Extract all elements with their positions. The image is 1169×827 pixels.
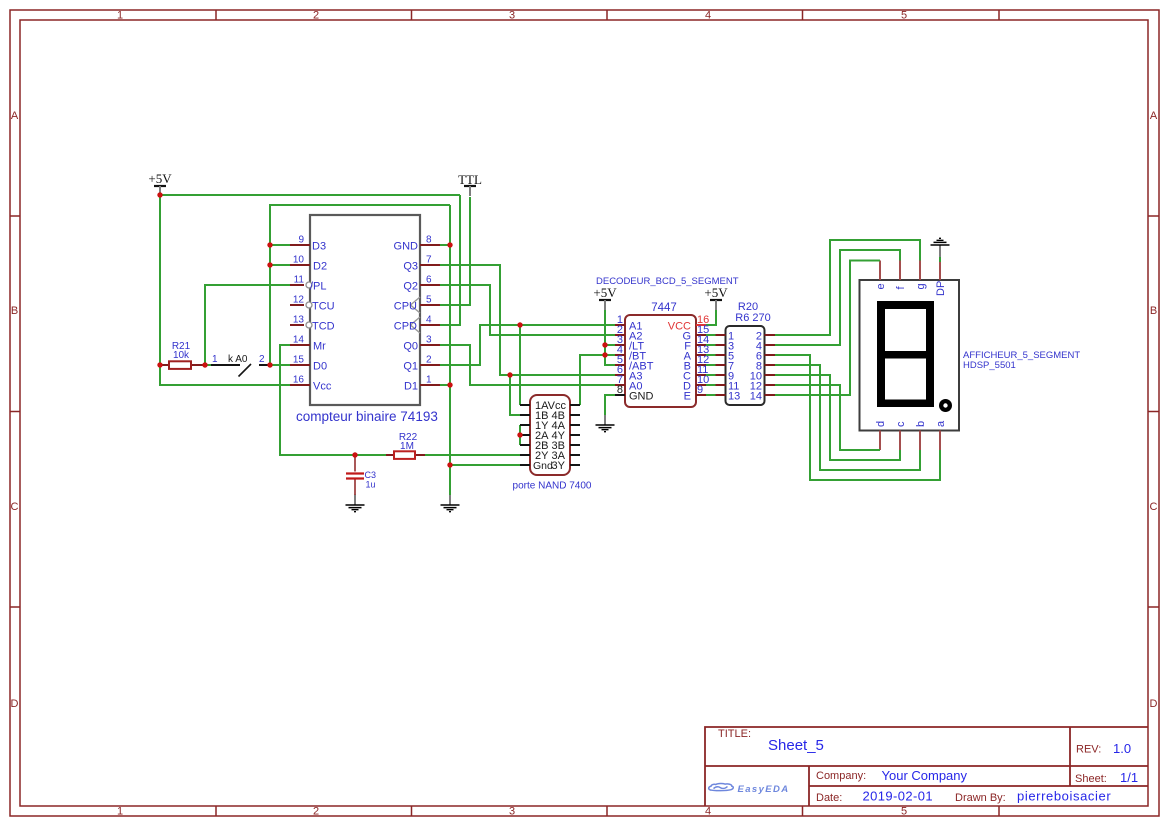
netflag +5V (left) — [148, 171, 172, 195]
wire D3 D2 tie vertical — [270, 205, 450, 365]
wire +5V rail top — [160, 194, 460, 196]
7447 right pin stubs — [696, 324, 706, 326]
ground symbol (7447 GND) — [596, 414, 615, 432]
display HDSP body — [860, 280, 960, 431]
wire R22 to NAND 2Y — [425, 454, 520, 456]
DOTS — [157, 192, 607, 467]
wire R20 pin10 to segment c — [775, 375, 900, 460]
wire switch to D0 and /PL tap — [205, 285, 290, 365]
svg-text:D: D — [1150, 698, 1158, 710]
wire +5V stem to /LT /BT /ABT — [605, 310, 615, 365]
wire CPD to +5V rail — [440, 195, 460, 325]
display bottom pin names — [875, 420, 947, 427]
svg-text:TCU: TCU — [312, 301, 335, 313]
ground symbol (DP inverted) — [931, 238, 950, 257]
svg-text:1: 1 — [426, 375, 432, 386]
svg-text:11: 11 — [294, 275, 305, 286]
svg-text:Q0: Q0 — [403, 341, 418, 353]
svg-text:R6 270: R6 270 — [735, 312, 770, 324]
display bottom pin stubs — [880, 431, 940, 451]
74193 inversion bubbles pins 11 12 13 — [306, 282, 312, 288]
svg-text:EasyEDA: EasyEDA — [738, 784, 790, 795]
capacitor C3 — [346, 455, 376, 495]
7447 body — [625, 315, 696, 407]
wire 7447 VCC to +5V — [706, 310, 716, 325]
netflag +5V (7447 left) — [593, 285, 617, 310]
junction switch pin2 — [267, 362, 272, 367]
svg-text:2: 2 — [426, 355, 432, 366]
svg-text:8: 8 — [426, 235, 432, 246]
svg-text:D: D — [11, 698, 19, 710]
wire Mr feed — [280, 345, 355, 455]
svg-text:6: 6 — [426, 275, 432, 286]
svg-text:4: 4 — [705, 10, 711, 22]
svg-text:3: 3 — [509, 806, 515, 818]
svg-text:e: e — [875, 283, 887, 289]
svg-text:1: 1 — [117, 806, 123, 818]
wire TTL to CPU — [440, 197, 470, 305]
NAND — [513, 395, 592, 492]
svg-text:9: 9 — [298, 235, 304, 246]
display top pin names — [875, 281, 947, 296]
frame left ruler ticks — [10, 216, 20, 607]
svg-text:16: 16 — [293, 375, 305, 386]
resistor R22 — [355, 432, 425, 459]
netflag +5V (7447 VCC) — [704, 285, 728, 310]
svg-text:1.0: 1.0 — [1113, 741, 1131, 756]
74193 left pin numbers — [293, 235, 305, 386]
junction A3 NAND branch — [507, 372, 512, 377]
svg-text:c: c — [895, 421, 907, 427]
netflag TTL — [458, 172, 482, 196]
display segment figure 8 — [877, 301, 934, 407]
svg-text:5: 5 — [901, 10, 907, 22]
svg-text:pierreboisacier: pierreboisacier — [1017, 789, 1111, 804]
svg-text:b: b — [915, 421, 927, 427]
svg-text:10: 10 — [293, 255, 305, 266]
74193 right pin names — [394, 241, 419, 393]
svg-text:7: 7 — [426, 255, 432, 266]
svg-text:13: 13 — [728, 391, 740, 403]
wire R20 pin14 to segment e — [775, 261, 880, 396]
svg-text:D2: D2 — [313, 261, 327, 273]
74193 body — [310, 215, 420, 405]
R20 right pin stubs — [765, 335, 776, 395]
svg-text:E: E — [684, 391, 691, 403]
junction C3 top — [352, 452, 357, 457]
svg-text:4: 4 — [705, 806, 711, 818]
svg-text:D3: D3 — [312, 241, 326, 253]
junction A1 NAND branch — [517, 322, 522, 327]
NAND 7400 body — [530, 395, 570, 475]
LEFTPART — [160, 195, 520, 495]
svg-text:3Y: 3Y — [552, 460, 566, 472]
svg-text:g: g — [915, 283, 927, 289]
junction NAND 2A — [517, 432, 522, 437]
svg-text:Sheet:: Sheet: — [1075, 773, 1107, 785]
svg-text:GND: GND — [394, 241, 419, 253]
7447 left pin names — [629, 321, 654, 393]
svg-text:1/1: 1/1 — [1120, 770, 1138, 785]
svg-text:B: B — [1150, 305, 1157, 317]
wire +5V rail down to R21 and Vcc — [160, 195, 290, 385]
svg-text:Q1: Q1 — [403, 361, 418, 373]
svg-text:d: d — [875, 421, 887, 427]
NAND right pin names — [548, 400, 567, 472]
svg-text:5: 5 — [901, 806, 907, 818]
svg-text:Q2: Q2 — [403, 281, 418, 293]
junction R21 left — [157, 362, 162, 367]
svg-text:+5V: +5V — [704, 285, 728, 300]
74193 clock wedge CPU — [411, 297, 421, 313]
wire NAND gnd row — [450, 464, 520, 466]
resistor R21 — [160, 341, 205, 369]
svg-text:3: 3 — [426, 335, 432, 346]
svg-text:D0: D0 — [313, 361, 327, 373]
wire D1 pin — [440, 384, 450, 386]
title block outline — [705, 727, 1148, 806]
svg-text:2: 2 — [313, 10, 319, 22]
junction /BT — [602, 352, 607, 357]
wire R20 pin4 to segment f — [775, 250, 900, 345]
svg-text:Date:: Date: — [816, 792, 842, 804]
svg-text:CPD: CPD — [394, 321, 417, 333]
svg-text:TITLE:: TITLE: — [718, 728, 751, 740]
junction NAND gnd row — [447, 462, 452, 467]
svg-text:Gnd: Gnd — [533, 460, 553, 472]
svg-text:1u: 1u — [366, 480, 376, 490]
svg-text:Company:: Company: — [816, 770, 866, 782]
svg-text:1M: 1M — [400, 441, 414, 452]
svg-text:D1: D1 — [404, 381, 418, 393]
junction D1 — [447, 382, 452, 387]
TITLEBLOCK — [705, 727, 1148, 806]
svg-text:13: 13 — [293, 315, 305, 326]
7447 right pin numbers — [697, 324, 709, 396]
svg-text:A: A — [1150, 110, 1158, 122]
IC7447 — [596, 276, 739, 407]
R20 left pin stubs — [716, 335, 726, 395]
junction /LT — [602, 342, 607, 347]
display DP dot — [939, 399, 952, 412]
svg-text:C: C — [1150, 501, 1158, 513]
74193 left pin stubs — [290, 245, 310, 385]
R20 — [706, 301, 775, 405]
svg-text:DP: DP — [935, 281, 947, 296]
svg-text:Vcc: Vcc — [313, 381, 332, 393]
svg-text:14: 14 — [750, 391, 762, 403]
svg-text:B: B — [11, 305, 18, 317]
easyeda logo cloud — [709, 783, 734, 790]
POWER — [148, 171, 949, 512]
svg-text:4: 4 — [426, 315, 432, 326]
svg-text:TTL: TTL — [458, 172, 482, 187]
svg-text:Your Company: Your Company — [882, 768, 968, 783]
NAND left pin names — [533, 400, 553, 472]
svg-text:14: 14 — [293, 335, 305, 346]
junction GND 74193 — [447, 242, 452, 247]
svg-text:Mr: Mr — [313, 341, 326, 353]
wire Q1 to A1 — [440, 325, 615, 365]
7447 left pin stubs — [615, 325, 625, 385]
wires 7447 to R20 — [706, 335, 716, 395]
svg-text:/PL: /PL — [310, 281, 327, 293]
7447 right pin names — [682, 331, 691, 403]
svg-text:k A0: k A0 — [228, 354, 248, 365]
svg-text:TCD: TCD — [312, 321, 335, 333]
wire NAND 1Y-2A-2B tie — [519, 425, 521, 445]
display top pin stubs — [880, 261, 940, 281]
svg-text:Sheet_5: Sheet_5 — [768, 737, 824, 754]
R20 right pin numbers — [750, 331, 762, 403]
wire R20 pin6 to segment a — [775, 355, 940, 480]
svg-text:C3: C3 — [365, 470, 377, 480]
resistor network R20 body — [726, 326, 765, 405]
svg-text:2: 2 — [313, 806, 319, 818]
svg-text:7447: 7447 — [651, 302, 677, 314]
ground symbol (x450 net) — [441, 494, 460, 512]
74193 right pin stubs — [420, 245, 440, 385]
svg-text:+5V: +5V — [593, 285, 617, 300]
svg-text:8: 8 — [617, 384, 623, 396]
wire Q3 to A3 — [440, 265, 615, 375]
7447 GND pin stub — [615, 394, 625, 396]
wire ground tie x450 — [449, 205, 451, 495]
svg-text:A: A — [11, 110, 19, 122]
WIRES2 — [775, 240, 940, 480]
frame right ruler ticks — [1148, 216, 1159, 607]
svg-text:9: 9 — [697, 384, 703, 396]
wire 7447 GND to ground — [605, 395, 615, 415]
svg-text:Q3: Q3 — [403, 261, 418, 273]
svg-text:10k: 10k — [173, 350, 190, 361]
74193 right pin numbers — [426, 235, 432, 386]
svg-text:REV:: REV: — [1076, 744, 1101, 756]
74193 left pin names — [310, 241, 335, 393]
svg-text:+5V: +5V — [148, 171, 172, 186]
wire DP to ground — [939, 257, 941, 262]
frame top ruler ticks — [216, 10, 999, 20]
switch k A0 — [205, 354, 269, 377]
svg-text:Drawn By:: Drawn By: — [955, 792, 1006, 804]
junction +5V left — [157, 192, 162, 197]
NAND right pin stubs — [570, 405, 580, 465]
svg-text:C: C — [11, 501, 19, 513]
svg-text:15: 15 — [293, 355, 305, 366]
wire NAND Vcc to +5V — [580, 355, 605, 405]
wire GND pin 74193 — [440, 244, 450, 246]
frame bottom ruler ticks — [216, 806, 999, 816]
svg-text:12: 12 — [293, 295, 305, 306]
svg-text:5: 5 — [426, 295, 432, 306]
svg-text:compteur binaire 74193: compteur binaire 74193 — [296, 409, 438, 424]
svg-text:porte NAND 7400: porte NAND 7400 — [513, 481, 592, 492]
wire R20 pin2 to segment g — [775, 240, 920, 335]
wire Q0 to A0 — [440, 345, 615, 385]
svg-text:GND: GND — [629, 391, 654, 403]
svg-text:2: 2 — [259, 354, 265, 365]
svg-text:1: 1 — [212, 354, 218, 365]
svg-text:a: a — [935, 420, 947, 427]
NAND left pin stubs — [520, 405, 530, 465]
svg-text:2019-02-01: 2019-02-01 — [863, 789, 934, 804]
wire A1 branch to NAND 1A — [519, 325, 521, 405]
74193 clock wedge CPD — [411, 317, 421, 333]
IC74193 — [290, 215, 440, 424]
svg-text:HDSP_5501: HDSP_5501 — [963, 360, 1016, 371]
DISPLAY — [860, 261, 1081, 451]
wire R20 pin8 to segment b — [775, 365, 920, 470]
7447 left pin numbers — [617, 314, 623, 386]
wire A3 branch to NAND 1B — [510, 375, 520, 415]
junction R21 right — [202, 362, 207, 367]
junction D3 — [267, 242, 272, 247]
WIRES1 — [440, 265, 716, 445]
wire R20 pin12 to segment d — [775, 385, 880, 450]
svg-text:CPU: CPU — [394, 301, 417, 313]
junction D2 — [267, 262, 272, 267]
svg-text:3: 3 — [509, 10, 515, 22]
wire Q2 to A2 — [440, 285, 615, 335]
svg-text:1: 1 — [117, 10, 123, 22]
ground symbol (C3) — [346, 494, 365, 512]
svg-text:DECODEUR_BCD_5_SEGMENT: DECODEUR_BCD_5_SEGMENT — [596, 276, 739, 287]
R20 left pin numbers — [728, 331, 740, 403]
